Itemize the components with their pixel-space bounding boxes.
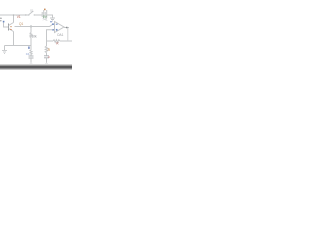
wire top rail left segment (0, 14, 29, 16)
wire emitter ground rail (5, 45, 32, 47)
wire mid horizontal to op-amp (15, 24, 53, 26)
label R3 dark red (56, 42, 59, 46)
wire plus input branch down (46, 31, 48, 47)
wire left ground drop (4, 46, 6, 51)
resistor R1a vertical (30, 33, 32, 51)
capacitor C2 (44, 56, 49, 63)
label node mid (32, 35, 38, 39)
bus bar bottom (0, 64, 72, 70)
wire R2 to C2 (46, 53, 48, 56)
switch S1 (25, 11, 35, 16)
ground arrow C1 (30, 64, 33, 66)
label S1 (30, 8, 34, 12)
battery V1 plates (42, 10, 47, 18)
resistor R1 vertical (30, 50, 32, 56)
label OA1 bottom (57, 33, 64, 37)
label OA1 top (42, 17, 48, 21)
label node blue (28, 47, 30, 49)
label V1 red (17, 15, 21, 19)
label C2 red (48, 55, 51, 59)
wire emitter Q1 down (13, 32, 15, 46)
junction output node (66, 27, 68, 29)
wire output feedback down (67, 28, 69, 42)
svg-text:Q1: Q1 (19, 22, 23, 26)
node input pin (3, 21, 5, 27)
label R2 orange (48, 48, 51, 52)
wire top rail right segment (47, 15, 53, 18)
label C1 blue (26, 52, 30, 56)
svg-text:S1: S1 (30, 8, 34, 12)
wire R3 to right edge (60, 40, 72, 42)
svg-text:OA1: OA1 (57, 33, 64, 37)
op-amp OA1 (52, 22, 64, 33)
transistor Q1 (3, 23, 14, 32)
junction node A (30, 26, 31, 27)
wire feedback horizontal (47, 40, 54, 42)
capacitor C1 (29, 56, 34, 63)
label Q1 (19, 22, 23, 26)
resistor R2 vertical (45, 46, 48, 53)
svg-text:C1: C1 (26, 52, 30, 56)
pin supply blue (50, 21, 51, 22)
wire op-amp plus input (47, 29, 53, 32)
svg-text:V1: V1 (17, 15, 21, 19)
wire op-amp output (64, 27, 69, 29)
label V1 orange (44, 9, 46, 11)
wire collector Q1 to rail (13, 14, 15, 22)
label V2 input (0, 16, 2, 23)
wire branch node down (30, 27, 32, 33)
ground at battery negative (50, 18, 55, 21)
svg-text:741: 741 (42, 17, 48, 21)
ground arrow C2 (45, 64, 48, 66)
resistor R3 horizontal (53, 40, 60, 43)
ground left (2, 51, 7, 54)
wire top rail mid segment (35, 14, 42, 16)
svg-text:10k: 10k (32, 35, 38, 39)
label 5V green (43, 15, 48, 19)
